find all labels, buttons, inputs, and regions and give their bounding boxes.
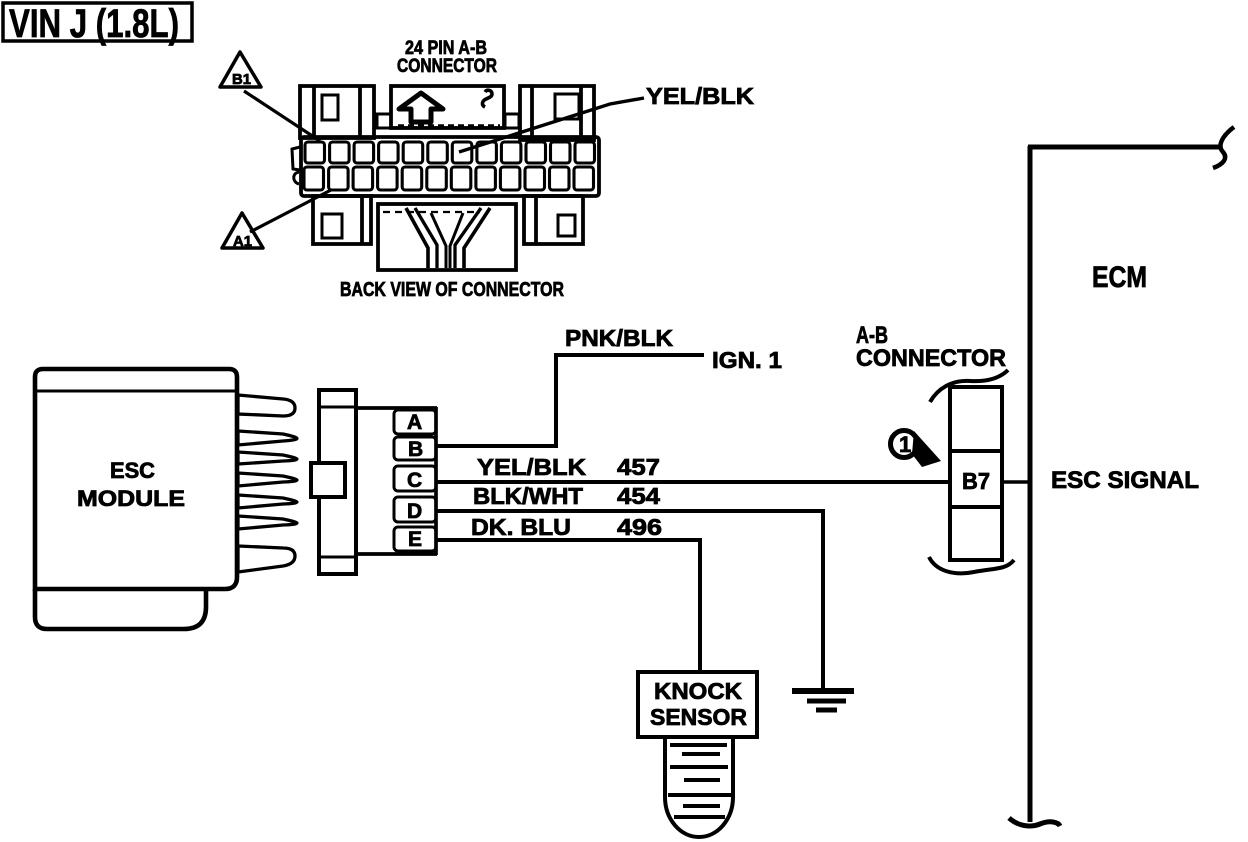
harness connector at ESC module xyxy=(311,390,356,574)
svg-text:B: B xyxy=(408,438,423,461)
connector pin grid row A (bottom row) xyxy=(304,167,594,190)
wire DK. BLU 496 from pin E to knock sensor xyxy=(436,540,700,672)
leader line from YEL/BLK label to connector pin xyxy=(459,98,644,152)
connector pin grid row B (top row) xyxy=(305,142,595,163)
connector bottom-right ear xyxy=(524,196,583,244)
svg-text:A1: A1 xyxy=(233,233,252,250)
leader line from B1 to connector pin xyxy=(244,91,320,141)
24-pin A-B connector back view drawing xyxy=(292,86,599,270)
A-B connector cell B7 xyxy=(929,370,1014,573)
svg-text:B1: B1 xyxy=(232,71,251,88)
svg-text:496: 496 xyxy=(617,514,662,540)
svg-text:B7: B7 xyxy=(962,468,990,494)
wire PNK/BLK from pin B to IGN. 1 xyxy=(436,355,704,446)
svg-text:CONNECTOR: CONNECTOR xyxy=(397,56,497,77)
ESC module box xyxy=(35,369,237,629)
connector bottom-center box with strain relief xyxy=(378,204,516,270)
ESC module connector teeth xyxy=(238,395,297,572)
svg-text:A: A xyxy=(407,411,422,434)
knock sensor thread lines xyxy=(668,745,732,817)
stub from B7 to ECM line xyxy=(1002,480,1029,484)
svg-text:SENSOR: SENSOR xyxy=(650,704,747,730)
svg-text:IGN. 1: IGN. 1 xyxy=(712,347,782,373)
svg-text:KNOCK: KNOCK xyxy=(654,678,742,704)
svg-text:ECM: ECM xyxy=(1092,261,1147,294)
svg-text:ESC: ESC xyxy=(110,458,155,483)
caption 24 PIN A-B CONNECTOR xyxy=(397,38,497,77)
leader line from A1 to connector pin xyxy=(250,190,331,232)
svg-text:457: 457 xyxy=(617,454,660,480)
wire YEL/BLK 457 from pin C to B7 xyxy=(436,480,950,484)
connector top-left ear xyxy=(300,86,374,138)
connector top-center box xyxy=(391,86,504,128)
svg-text:MODULE: MODULE xyxy=(77,486,185,511)
svg-text:D: D xyxy=(407,500,422,523)
svg-text:ESC SIGNAL: ESC SIGNAL xyxy=(1051,467,1199,494)
connector left latch bracket xyxy=(292,147,300,170)
svg-text:VIN J (1.8L): VIN J (1.8L) xyxy=(9,2,179,46)
svg-text:1: 1 xyxy=(899,432,911,457)
svg-text:C: C xyxy=(407,469,422,492)
svg-text:PNK/BLK: PNK/BLK xyxy=(565,325,673,351)
svg-text:CONNECTOR: CONNECTOR xyxy=(856,345,1006,372)
svg-text:454: 454 xyxy=(617,483,660,509)
pin block A-E xyxy=(356,407,437,555)
svg-text:E: E xyxy=(408,528,422,551)
connector main body xyxy=(301,137,599,196)
callout triangle A1 xyxy=(222,213,263,250)
svg-text:YEL/BLK: YEL/BLK xyxy=(646,83,754,109)
title box VIN J (1.8L) xyxy=(3,2,192,46)
connector bottom-left ear xyxy=(313,196,371,244)
ground symbol xyxy=(792,691,854,710)
ECM boundary line xyxy=(1009,127,1234,826)
svg-text:YEL/BLK: YEL/BLK xyxy=(477,454,586,480)
wire BLK/WHT 454 from pin D to ground xyxy=(436,511,823,689)
svg-text:BLK/WHT: BLK/WHT xyxy=(473,483,583,509)
callout circled 1 with pointer xyxy=(891,431,942,468)
svg-text:BACK VIEW OF CONNECTOR: BACK VIEW OF CONNECTOR xyxy=(340,279,564,301)
connector top bumps xyxy=(377,114,391,128)
connector top-right ear xyxy=(520,86,594,140)
callout triangle B1 xyxy=(220,52,261,88)
knock sensor box xyxy=(638,672,757,837)
svg-text:DK. BLU: DK. BLU xyxy=(471,514,571,540)
